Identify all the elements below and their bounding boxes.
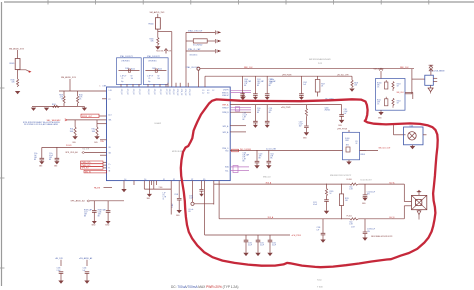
ground — [31, 108, 36, 111]
node XTAL_CL_CAP — [186, 48, 215, 56]
svg-text:3R3: 3R3 — [346, 144, 349, 146]
svg-text:LN: LN — [163, 195, 165, 197]
ferrite bead FB101 — [10, 59, 20, 70]
ground — [410, 145, 415, 150]
module FL100 — [337, 129, 360, 160]
svg-text:PWM_P: PWM_P — [222, 108, 229, 110]
svg-text:B_CLK M_OUT: B_CLK M_OUT — [361, 180, 372, 182]
svg-text:REF_CLK: REF_CLK — [400, 67, 409, 69]
svg-text:3V3_A: 3V3_A — [266, 181, 272, 184]
svg-text:0.1uF: 0.1uF — [260, 245, 264, 247]
net flag — [232, 149, 239, 152]
svg-text:4s_CLK_24M: 4s_CLK_24M — [266, 149, 276, 151]
svg-text:WF_CLK24M: WF_CLK24M — [240, 149, 251, 151]
svg-text:C101: C101 — [257, 79, 261, 81]
svg-text:C137: C137 — [351, 226, 355, 228]
resistor R110 — [77, 91, 84, 106]
svg-text:XTAL_CLKOUT1: XTAL_CLKOUT1 — [120, 55, 133, 58]
svg-text:SMG2: SMG2 — [92, 225, 96, 227]
capacitor C131 — [256, 235, 264, 253]
svg-text:XT3_CK: XT3_CK — [138, 89, 140, 96]
svg-text:BK: BK — [84, 216, 86, 218]
svg-text:T 500: T 500 — [317, 287, 323, 289]
svg-text:SMG: SMG — [72, 142, 75, 144]
text Y100 values — [163, 192, 167, 200]
svg-text:C107: C107 — [299, 122, 303, 124]
svg-text:3.3: 3.3 — [207, 93, 209, 95]
ground — [254, 165, 259, 168]
svg-text:C104: C104 — [243, 152, 247, 154]
capacitor C121 — [267, 150, 275, 165]
capacitor C110 — [199, 181, 204, 197]
ground — [265, 97, 270, 100]
svg-text:XT9_CK: XT9_CK — [172, 89, 174, 96]
svg-text:SM_CLK_OUT: SM_CLK_OUT — [379, 148, 392, 150]
capacitor C111 — [339, 105, 347, 120]
wire — [32, 105, 78, 107]
net label MIC_IN — [84, 170, 107, 173]
svg-text:C108: C108 — [174, 194, 178, 196]
svg-text:SM_AVDD_3V3: SM_AVDD_3V3 — [61, 76, 77, 79]
svg-text:uPH_AVDD_A3: uPH_AVDD_A3 — [79, 257, 92, 260]
wire — [167, 83, 169, 87]
svg-text:1.0uF: 1.0uF — [172, 203, 174, 207]
ground — [378, 110, 384, 119]
svg-text:XT13_CK: XT13_CK — [188, 89, 190, 97]
svg-text:R120: R120 — [330, 191, 334, 193]
svg-text:C111: C111 — [344, 109, 348, 111]
svg-text:BK: BK — [257, 112, 259, 114]
capacitor C101 — [253, 76, 264, 97]
svg-text:PDM_O: PDM_O — [222, 148, 229, 150]
node SM_AVDD_3V3 (top) — [150, 11, 166, 18]
wire — [18, 70, 32, 80]
note text — [23, 121, 60, 126]
svg-text:BK: BK — [257, 85, 259, 87]
svg-text:BK: BK — [243, 161, 245, 163]
wire — [170, 189, 172, 214]
svg-text:CHLPS: CHLPS — [223, 90, 230, 92]
svg-text:U0402: U0402 — [155, 123, 162, 125]
resistor R112 — [92, 120, 99, 136]
svg-text:R118: R118 — [354, 83, 358, 85]
svg-text:C102: C102 — [303, 82, 307, 84]
testpoint TP1 — [216, 30, 222, 34]
ground — [147, 189, 152, 200]
svg-text:C138 0.1uF: C138 0.1uF — [367, 229, 375, 231]
svg-text:XT2_CK: XT2_CK — [132, 89, 134, 96]
ground — [362, 198, 368, 206]
svg-text:100: 100 — [131, 78, 134, 80]
svg-text:C121: C121 — [313, 202, 317, 204]
svg-text:R112: R112 — [92, 129, 96, 131]
capacitor C110 — [253, 105, 261, 125]
svg-text:SMG: SMG — [39, 166, 42, 168]
svg-text:C121: C121 — [270, 154, 274, 156]
capacitor C100 — [240, 76, 251, 97]
svg-text:C9: C9 — [148, 78, 150, 80]
svg-text:C120: C120 — [259, 154, 263, 156]
svg-text:XT12_CK: XT12_CK — [184, 89, 186, 97]
svg-text:XT4_CK: XT4_CK — [147, 89, 149, 96]
wire — [405, 92, 413, 99]
svg-text:1.4: 1.4 — [124, 179, 126, 181]
pin stub — [102, 98, 107, 100]
ground — [320, 240, 325, 243]
capacitor C120 — [255, 150, 263, 165]
wire uPH_P1V8 2 — [230, 105, 341, 109]
net label SPKR_OUT — [81, 114, 107, 118]
svg-text:uPH_P1V8: uPH_P1V8 — [337, 129, 348, 131]
svg-text:C134: C134 — [83, 268, 87, 270]
svg-text:C118: C118 — [98, 212, 102, 214]
svg-text:C100: C100 — [189, 195, 193, 197]
svg-text:R102 DNL: R102 DNL — [156, 51, 164, 53]
ground — [303, 132, 309, 139]
svg-text:uPH_P1V8: uPH_P1V8 — [281, 107, 290, 109]
svg-text:C130: C130 — [248, 243, 252, 245]
svg-text:Tone: Tone — [317, 280, 323, 282]
svg-text:C11x: C11x — [34, 153, 38, 155]
svg-text:C9: C9 — [121, 78, 123, 80]
capacitor C117 — [84, 201, 97, 221]
svg-text:SEL_TALK/MIX: SEL_TALK/MIX — [47, 119, 62, 122]
bus (pink) — [230, 90, 251, 92]
svg-text:Gain: Gain — [349, 221, 352, 223]
svg-text:REF_CLK: REF_CLK — [244, 67, 253, 69]
svg-text:BK: BK — [259, 158, 261, 160]
svg-text:XT5_CK: XT5_CK — [153, 89, 155, 96]
svg-text:P2: P2 — [109, 99, 111, 101]
svg-text:R12 +R R: R12 +R R — [83, 149, 91, 151]
inductor FL201 — [347, 216, 359, 226]
ground — [176, 210, 182, 217]
svg-text:1M 10K 1b: 1M 10K 1b — [190, 55, 198, 57]
svg-text:C100: C100 — [244, 79, 248, 81]
connector LINK — [100, 85, 108, 87]
resistor R118 — [337, 74, 358, 88]
svg-text:X1: X1 — [163, 179, 165, 181]
svg-text:0.1uF: 0.1uF — [49, 155, 53, 157]
IC U0402 — [107, 87, 231, 181]
resistor R121 + capacitor C107 — [299, 105, 309, 133]
ground — [240, 97, 245, 100]
svg-text:R117: R117 — [321, 84, 325, 86]
svg-text:XT7_CK: XT7_CK — [165, 89, 167, 96]
node SM_AVDD_3V3 (mid) — [61, 76, 77, 91]
capacitor C118 — [98, 201, 111, 221]
svg-text:MUTE OE R8: MUTE OE R8 — [172, 151, 182, 153]
svg-text:LN +4s: LN +4s — [189, 209, 194, 211]
capacitor C134 (uPH_AVDD_A3) — [79, 257, 92, 280]
svg-text:R2: R2 — [158, 76, 160, 78]
svg-text:CP: CP — [191, 179, 193, 181]
svg-text:1: 1 — [100, 85, 101, 87]
svg-text:BK: BK — [244, 85, 246, 87]
ground — [265, 125, 270, 128]
node CP — [189, 181, 214, 214]
svg-text:SM_CLK: SM_CLK — [397, 92, 405, 94]
svg-text:C132: C132 — [272, 243, 276, 245]
node XTAL1_1V8 — [186, 30, 215, 33]
svg-text:FB101: FB101 — [361, 154, 366, 156]
svg-text:R114: R114 — [52, 104, 56, 106]
resistor R115 — [52, 104, 60, 108]
ground — [105, 221, 110, 227]
net PL3V3 — [42, 145, 107, 150]
svg-text:10p: 10p — [148, 81, 151, 83]
svg-text:R109: R109 — [59, 95, 63, 97]
ground — [241, 93, 246, 100]
svg-text:0.1uF: 0.1uF — [248, 245, 252, 247]
wire SM_CLK — [397, 92, 412, 94]
net SPK_VDD_A3 — [65, 151, 106, 154]
svg-text:SCL: SCL — [225, 170, 228, 172]
testpoint TP3 — [216, 49, 222, 53]
svg-text:1.09: 1.09 — [109, 90, 112, 92]
svg-text:KSEL3Z: KSEL3Z — [222, 95, 228, 97]
svg-text:BK: BK — [269, 85, 271, 87]
capacitor C116 — [49, 147, 59, 161]
svg-text:PWM_N: PWM_N — [222, 112, 229, 114]
ground — [324, 211, 329, 214]
svg-text:17R 2R BK1: 17R 2R BK1 — [148, 60, 157, 62]
svg-text:FL201: FL201 — [347, 216, 352, 218]
svg-text:100: 100 — [158, 78, 161, 80]
svg-text:1.9: 1.9 — [202, 90, 204, 92]
capacitor C133 (AU_1V8) — [56, 257, 64, 280]
svg-text:SEL: SEL — [109, 120, 112, 122]
net PA_EN — [94, 186, 112, 189]
ground — [58, 281, 63, 284]
svg-text:XT6_CK: XT6_CK — [159, 89, 161, 96]
svg-text:BK: BK — [243, 119, 245, 121]
text C104 values — [243, 152, 250, 162]
svg-text:SWD_CLK: SWD_CLK — [263, 176, 272, 178]
svg-text:SM2 S25 MO AB4 5V3 A M3: SM2 S25 MO AB4 5V3 A M3 — [309, 58, 330, 61]
svg-text:C111: C111 — [269, 108, 273, 110]
svg-text:R103: R103 — [397, 84, 401, 86]
resistor R120 + capacitor C121 — [313, 184, 333, 211]
svg-text:49.9: 49.9 — [377, 101, 380, 103]
svg-text:C131: C131 — [260, 243, 264, 245]
ground — [78, 106, 88, 111]
node SM_AVDD_3V3 (left) — [9, 48, 25, 59]
testpoint TP2 — [216, 39, 222, 43]
wire — [59, 90, 107, 92]
svg-text:Gain: Gain — [349, 187, 352, 189]
pin stub — [156, 181, 158, 185]
annotation red loop — [181, 99, 438, 267]
svg-text:C124 0.1uF: C124 0.1uF — [367, 192, 375, 194]
svg-text:SMG: SMG — [94, 142, 97, 144]
svg-text:SLV_B: SLV_B — [389, 217, 395, 219]
ground — [44, 108, 49, 111]
wire — [230, 111, 251, 113]
svg-text:1.2: 1.2 — [212, 90, 214, 92]
svg-text:BK: BK — [98, 216, 100, 218]
wire — [223, 125, 246, 128]
svg-text:0.1uF: 0.1uF — [313, 204, 317, 206]
svg-text:1V8: 1V8 — [168, 51, 171, 53]
svg-text:R119: R119 — [345, 198, 349, 200]
svg-text:XT8_CK: XT8_CK — [168, 89, 170, 96]
svg-text:DC: 700uA/700mA MAX PWR=20% (T: DC: 700uA/700mA MAX PWR=20% (TYP 1.2A) — [171, 285, 238, 289]
svg-text:uPH_P3V3: uPH_P3V3 — [292, 235, 301, 237]
svg-text:C133: C133 — [57, 268, 61, 270]
bus ripper (pink) — [230, 107, 251, 111]
svg-text:R101: R101 — [377, 99, 381, 101]
capacitor C102 — [299, 76, 307, 97]
svg-text:BK: BK — [270, 158, 272, 160]
pin stub — [100, 139, 107, 141]
svg-text:XT1_CK: XT1_CK — [126, 89, 128, 96]
wire — [120, 84, 122, 87]
ground — [255, 253, 260, 256]
svg-text:SM_AVDD_3V3: SM_AVDD_3V3 — [150, 11, 166, 14]
inductor FL200 — [347, 179, 359, 191]
wire 3V3_A rail — [214, 181, 404, 205]
svg-text:1uF: 1uF — [34, 155, 37, 157]
svg-text:SLV_A: SLV_A — [389, 181, 395, 184]
capacitor C130 — [244, 235, 252, 253]
pin stub — [151, 181, 153, 185]
ground — [84, 281, 89, 284]
ground arrow — [417, 210, 421, 220]
ground — [253, 97, 258, 100]
ground — [72, 136, 77, 144]
svg-text:R110: R110 — [79, 95, 83, 97]
svg-text:C11x: C11x — [49, 153, 53, 155]
text title — [317, 280, 323, 289]
svg-text:SMG: SMG — [54, 166, 57, 168]
svg-text:SM_AVDD_3V3: SM_AVDD_3V3 — [9, 48, 25, 51]
wire — [204, 181, 206, 235]
ground — [39, 161, 44, 167]
resistor R111 — [70, 120, 77, 136]
svg-text:X2: X2 — [173, 179, 175, 181]
pin stub — [133, 181, 135, 185]
net SEL_TALK/MIX — [47, 119, 107, 122]
svg-text:0.1uF: 0.1uF — [272, 245, 276, 247]
svg-text:WF2_A: WF2_A — [223, 131, 230, 134]
capacitor C111 — [265, 105, 273, 125]
wire REF_CLK — [200, 67, 414, 69]
pin stub — [100, 154, 107, 156]
wire WF_CLK24M — [230, 149, 378, 151]
svg-text:2.2: 2.2 — [202, 93, 204, 95]
resistor R116 — [11, 79, 19, 87]
svg-text:Q100: Q100 — [325, 107, 329, 109]
ground — [243, 253, 248, 256]
wire uPH_P3V3 rail — [205, 235, 301, 237]
resistor R100 — [149, 38, 158, 46]
ground — [338, 120, 344, 127]
module SM_DVDD — [374, 68, 406, 110]
svg-text:R1: R1 — [356, 141, 358, 143]
power arrow — [417, 190, 422, 196]
svg-text:WF1_A: WF1_A — [223, 125, 230, 128]
svg-text:XTAL_CLKOUT2: XTAL_CLKOUT2 — [147, 55, 160, 58]
svg-text:R2: R2 — [131, 76, 133, 78]
svg-text:1.0uF: 1.0uF — [189, 197, 193, 199]
capacitor C108 — [172, 181, 182, 210]
wire — [404, 184, 411, 201]
text C101 values — [243, 113, 247, 121]
IC U100 buffer — [425, 71, 445, 86]
svg-text:C136: C136 — [317, 227, 321, 229]
net label PWM_OUT- — [81, 164, 107, 167]
svg-text:17R 2R BK1: 17R 2R BK1 — [121, 60, 130, 62]
text SWD — [263, 175, 351, 178]
svg-text:R11x: R11x — [101, 141, 105, 143]
capacitor C132 — [268, 235, 276, 253]
svg-text:SWD SWO PIO31 5V R33 TP: SWD SWO PIO31 5V R33 TP — [330, 175, 351, 177]
svg-text:4.7uF: 4.7uF — [344, 111, 348, 113]
ground — [299, 97, 304, 100]
bus ripper (pink) 2 — [230, 166, 249, 173]
transistor Q100 — [325, 107, 331, 111]
svg-text:R3: R3 — [189, 211, 191, 213]
wire — [412, 69, 425, 94]
svg-text:BK: BK — [269, 112, 271, 114]
svg-text:SPK_VDD_A3: SPK_VDD_A3 — [65, 151, 77, 154]
svg-text:FB100: FB100 — [149, 24, 154, 26]
ground — [54, 161, 59, 167]
svg-text:2N7002: 2N7002 — [325, 109, 331, 111]
svg-text:FB101: FB101 — [10, 63, 15, 65]
wire — [158, 29, 172, 87]
node XTAL_CLKOUT — [186, 66, 200, 87]
transistor Q101 — [404, 126, 427, 145]
svg-text:XO_2N7002: XO_2N7002 — [193, 45, 202, 47]
svg-text:AU_1V8: AU_1V8 — [56, 257, 63, 260]
net SPK_AVDD_A3 — [71, 200, 125, 203]
wire uPH_P1V8 — [205, 75, 352, 88]
svg-text:2K: 2K — [356, 143, 358, 145]
svg-text:3s: 3s — [163, 199, 165, 201]
svg-text:XT10_CK: XT10_CK — [176, 89, 178, 97]
svg-text:XT11_CK: XT11_CK — [180, 89, 182, 97]
wire — [404, 206, 411, 219]
svg-text:XT0_CK: XT0_CK — [120, 89, 122, 96]
module XTAL_CLKOUT1 — [117, 55, 142, 84]
power flag — [429, 65, 434, 75]
svg-text:2.6: 2.6 — [144, 179, 146, 181]
svg-text:C_SP_LF: C_SP_LF — [147, 76, 153, 78]
svg-text:MIC_IN: MIC_IN — [85, 171, 92, 173]
svg-text:0.1uF: 0.1uF — [299, 124, 303, 126]
wire — [223, 131, 246, 134]
svg-text:SPK_INT: SPK_INT — [82, 168, 89, 170]
svg-text:SMG2: SMG2 — [105, 225, 109, 227]
resistor R102 — [186, 39, 215, 47]
wire — [394, 125, 406, 135]
svg-text:C110: C110 — [257, 108, 261, 110]
capacitor C115 — [34, 147, 44, 161]
svg-text:FL100: FL100 — [345, 138, 350, 140]
ground — [346, 160, 351, 165]
speaker SPK100 — [412, 195, 427, 209]
svg-text:P+: P+ — [109, 164, 111, 166]
svg-text:uPH_P1V8: uPH_P1V8 — [282, 75, 291, 77]
ground — [94, 136, 104, 144]
svg-text:BK: BK — [49, 159, 51, 161]
svg-text:uW_SCL_1P8: uW_SCL_1P8 — [337, 74, 348, 76]
net label PWM_OUT+ — [81, 161, 107, 164]
svg-text:1.1F: 1.1F — [163, 192, 166, 194]
ground — [92, 221, 97, 227]
